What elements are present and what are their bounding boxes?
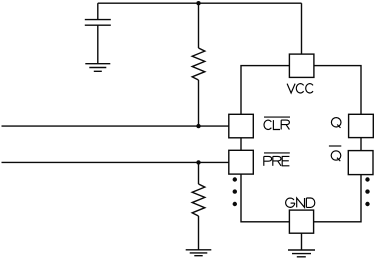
pin label VCC [287, 84, 313, 93]
wire: PRE input line [2, 161, 230, 163]
junction: CLR line / R1 [196, 124, 200, 128]
resistor R1 [192, 48, 205, 80]
IC U1 body (flip-flop) [241, 66, 361, 222]
wire: capacitor top lead [97, 3, 99, 19]
ground (below GND pin) [288, 250, 315, 257]
unused-pin dots (left) [233, 177, 237, 206]
resistor R2 [192, 184, 205, 216]
wire: rail to VCC pin [301, 3, 303, 54]
pin box GND [289, 210, 313, 233]
pin label Q [331, 118, 341, 128]
wire: R2 lower lead [198, 216, 200, 250]
capacitor C1 [85, 20, 111, 26]
pin label Qbar (overlined) [329, 146, 341, 161]
wire: capacitor bottom lead [97, 25, 99, 64]
wire: GND pin lead [301, 233, 303, 250]
wire: CLR input line [2, 125, 230, 127]
ground (below capacitor) [85, 64, 110, 72]
pin label PRE (overlined) [264, 153, 290, 166]
pin box Qbar [348, 151, 373, 175]
pin box CLR [229, 114, 254, 138]
pin box VCC [289, 54, 314, 77]
pin box PRE [229, 150, 254, 174]
pin label CLR (overlined) [264, 117, 290, 129]
junction: PRE line / R2 [196, 160, 200, 164]
junction: top rail / R1 [196, 1, 200, 5]
wire: R2 upper lead [198, 162, 200, 184]
wire: R1 upper lead [198, 3, 200, 48]
wire: R1 lower lead [198, 80, 200, 126]
ground (below R2) [186, 250, 212, 256]
pin label GND [286, 198, 315, 207]
wire: top VCC rail [98, 2, 302, 4]
unused-pin dots (right) [365, 177, 369, 206]
pin box Q [349, 114, 374, 137]
